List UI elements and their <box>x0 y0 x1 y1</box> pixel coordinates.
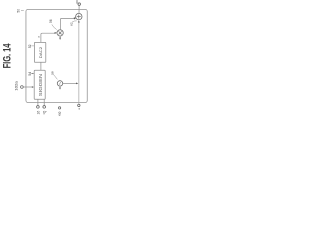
bottom terminal Q <box>43 106 46 109</box>
wire: box52 up and right to mixer <box>41 33 55 42</box>
svg-text:102a: 102a <box>15 80 19 90</box>
svg-text:54: 54 <box>28 72 32 76</box>
svg-text:DAC2: DAC2 <box>38 47 43 59</box>
arrowhead into mixer <box>55 32 57 34</box>
wire: box 54 to bottom terminal Q <box>43 99 45 105</box>
arrow stub below mixer <box>59 36 61 38</box>
wire: input terminal into box 54 <box>23 86 32 88</box>
arrowhead into adder bottom <box>78 20 80 22</box>
svg-text:FIG. 14: FIG. 14 <box>2 43 13 69</box>
leader for label 52 <box>31 45 34 47</box>
leader for label 56 <box>52 24 57 29</box>
leader for label 62 <box>72 21 77 22</box>
wire: mixer up and right to adder <box>60 18 74 29</box>
leader for label 58 <box>54 75 58 80</box>
dash under label Q <box>43 113 45 115</box>
box 52 (DAC) <box>34 42 45 62</box>
mixer 56 <box>57 30 63 36</box>
svg-text:50: 50 <box>16 9 20 13</box>
svg-text:SIGGEN: SIGGEN <box>38 74 43 96</box>
svg-text:58: 58 <box>50 71 54 75</box>
wire: oscillator to vertical wire <box>63 82 77 84</box>
svg-text:62: 62 <box>69 22 73 26</box>
wire: adder to output terminal <box>78 5 80 13</box>
box 54 (signal generator) <box>34 70 45 99</box>
arrowhead into adder <box>74 17 77 19</box>
arrowhead into box 54 <box>32 86 34 88</box>
bottom terminal I <box>37 106 40 109</box>
vertical wire from LO up to adder <box>78 23 80 105</box>
svg-text:16: 16 <box>36 111 41 115</box>
svg-text:Q: Q <box>43 110 47 113</box>
oscillator 58 <box>57 81 62 86</box>
input terminal left <box>21 86 24 89</box>
arrow stub below oscillator <box>59 86 61 88</box>
leader arrow for label 54 <box>31 73 33 75</box>
wire: box 54 to bottom terminal I <box>37 99 39 105</box>
svg-text:90: 90 <box>58 112 62 115</box>
svg-text:60: 60 <box>75 0 79 4</box>
adder 62 <box>76 13 82 19</box>
svg-text:56: 56 <box>49 19 53 23</box>
oscillator input terminal (bottom) <box>58 107 60 109</box>
output terminal 60 <box>78 3 81 6</box>
svg-text:52: 52 <box>28 44 32 48</box>
LO input terminal <box>78 104 80 106</box>
leader for label 50 <box>21 9 24 12</box>
arrowhead at junction <box>76 83 78 85</box>
enclosure box 50 <box>26 9 87 102</box>
dash under oscillator terminal label <box>59 115 61 117</box>
wire: box54 to box52 <box>40 62 42 70</box>
